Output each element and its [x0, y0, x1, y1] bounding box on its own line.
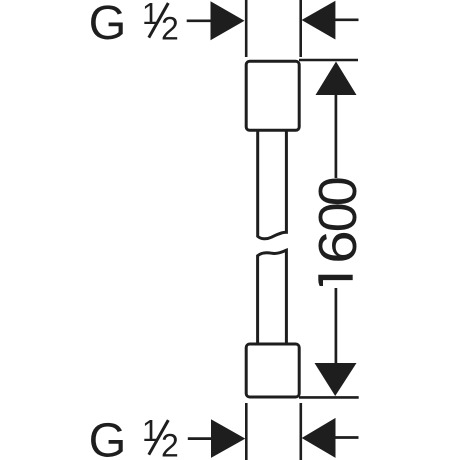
extension line bottom-right of connector: [299, 403, 302, 460]
dimension 1600 top extension line: [299, 59, 358, 62]
top dimension arrow left-pointing: [302, 1, 336, 40]
top dimension leader left: [187, 19, 212, 22]
svg-text:G: G: [89, 413, 127, 460]
dimension 1600 line upper part: [335, 93, 338, 178]
bottom dimension leader left: [188, 437, 212, 440]
bottom dimension arrow left-pointing: [302, 418, 336, 458]
bottom dimension arrow right-pointing: [211, 419, 245, 458]
hose connector bottom: [246, 344, 299, 397]
dimension value 1600: [308, 176, 368, 286]
extension line top-right of connector: [299, 0, 302, 57]
top dimension leader right: [334, 18, 359, 21]
dimension 1600 line lower part: [335, 288, 338, 365]
label G 1/2 bottom: [89, 413, 179, 460]
extension line bottom-left of connector: [245, 403, 248, 460]
svg-text:2: 2: [161, 428, 179, 460]
svg-text:2: 2: [161, 11, 179, 47]
dimension 1600 bottom extension line: [299, 396, 359, 399]
hose tube lower segment: [258, 250, 287, 344]
svg-text:G: G: [89, 0, 127, 50]
bottom dimension leader right: [334, 436, 359, 439]
hose tube upper segment: [258, 130, 287, 239]
hose connector top: [246, 61, 299, 130]
label G 1/2 top: [89, 0, 179, 50]
svg-text:0: 0: [308, 176, 368, 206]
extension line top-left of connector: [245, 0, 248, 57]
dimension 1600 arrow down: [315, 363, 357, 396]
top dimension arrow right-pointing: [211, 1, 245, 40]
svg-text:6: 6: [308, 230, 368, 264]
dimension 1600 arrow up: [316, 62, 357, 96]
